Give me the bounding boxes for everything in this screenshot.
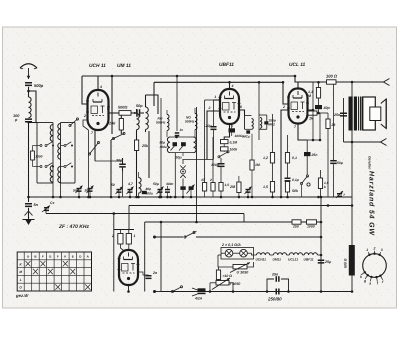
capacitor bridge box <box>266 279 290 293</box>
coil L3a <box>58 124 61 140</box>
capacitor jack <box>180 186 185 198</box>
wire lamp stub bottom <box>153 290 161 293</box>
svg-text:2n: 2n <box>152 271 158 275</box>
svg-text:80p: 80p <box>146 187 152 191</box>
svg-text:1,5: 1,5 <box>225 183 230 187</box>
svg-text:500: 500 <box>73 189 79 193</box>
wire top rail A <box>82 75 295 77</box>
resistor heater a <box>111 230 123 249</box>
wire x352 long <box>351 81 354 97</box>
coil L6 small <box>139 172 142 197</box>
svg-text:5n: 5n <box>34 203 39 207</box>
resistor U3050 shunt <box>230 263 250 275</box>
svg-text:25μ: 25μ <box>324 260 332 264</box>
wire box tube4 right <box>160 221 163 292</box>
coil IF3b <box>259 115 267 129</box>
trimmer T7 <box>245 187 252 198</box>
svg-text:0,1: 0,1 <box>292 156 297 160</box>
wire lamp stub top <box>153 236 183 239</box>
resistor 1M mid <box>250 134 260 197</box>
label 80p <box>160 141 166 145</box>
svg-text:M: M <box>19 270 22 274</box>
switch mains <box>184 231 197 238</box>
wire x333 vert <box>332 81 335 160</box>
wire coil box link <box>29 122 38 124</box>
svg-text:25n: 25n <box>333 113 341 117</box>
trimmer T5 <box>127 182 134 197</box>
svg-text:ZF : 470 KHz: ZF : 470 KHz <box>58 224 90 230</box>
svg-text:?: ? <box>343 193 345 197</box>
coil L3b <box>58 143 61 159</box>
wire tube2 bottom pin <box>224 124 234 140</box>
svg-text:0,1M: 0,1M <box>230 141 238 145</box>
capacitor trim IF2b <box>179 142 186 150</box>
wire tube4 top bracket <box>114 229 134 231</box>
capacitor 5n <box>25 203 39 207</box>
tube socket diagram <box>360 247 386 286</box>
switch row A2 <box>37 163 54 168</box>
wire x196.5 long <box>195 107 198 223</box>
svg-text:UBF11: UBF11 <box>304 258 314 262</box>
tube U4 UY-rect <box>118 250 140 285</box>
label IF1b <box>185 116 195 124</box>
wire IF2 down <box>175 153 183 197</box>
trimmer T3 <box>187 185 195 199</box>
svg-text:100k: 100k <box>230 148 239 152</box>
wire x149 vertical <box>148 131 150 178</box>
wire coil L5 top <box>146 95 159 114</box>
coil IF2b <box>194 137 197 153</box>
svg-text:500Ω: 500Ω <box>118 106 127 110</box>
switch row A1 <box>37 142 54 147</box>
speaker frame <box>363 97 376 130</box>
label UM 11 <box>117 63 131 69</box>
svg-text:UBF11: UBF11 <box>219 62 234 68</box>
switch mains lower <box>171 286 182 293</box>
switch row B2 <box>61 163 74 168</box>
svg-text:F: F <box>57 254 59 258</box>
svg-text:MCμ: MCμ <box>243 135 250 139</box>
capacitor 400a <box>142 187 153 196</box>
svg-text:a: a <box>369 281 371 285</box>
connector plug bottom <box>381 139 387 146</box>
capacitor trim IF2a <box>171 142 178 150</box>
trimmer rail C end <box>42 206 50 213</box>
svg-text:1: 1 <box>134 234 136 238</box>
label ZF 470 KHz <box>58 224 90 230</box>
trimmer T1 <box>73 186 83 198</box>
svg-text:400n: 400n <box>165 182 173 186</box>
wire rail C <box>46 208 244 222</box>
resistor U3050 b <box>212 278 240 290</box>
wire anode rail right <box>298 81 327 83</box>
resistor 1k h <box>308 111 322 121</box>
label UCH 11 <box>89 63 106 69</box>
speaker cone <box>381 99 386 129</box>
switch lever top <box>69 118 79 127</box>
resistor 0.1M b <box>285 135 297 163</box>
svg-text:50: 50 <box>111 183 115 187</box>
wire tube2 top drop <box>228 81 231 90</box>
lamp box <box>221 248 254 260</box>
resistor 100k <box>221 147 239 152</box>
svg-text:250/80: 250/80 <box>267 297 282 302</box>
transformer output bars <box>349 97 363 131</box>
resistor 1.5k <box>318 170 328 197</box>
svg-text:250: 250 <box>292 225 299 229</box>
tube U2 UBF11 <box>219 89 241 124</box>
svg-text:UCL 11: UCL 11 <box>289 62 306 68</box>
label UBF11 <box>219 62 234 68</box>
resistor 1.2k <box>263 114 275 197</box>
ground chassis <box>23 220 35 226</box>
switch S5 <box>111 132 125 140</box>
heater UBF11 <box>304 253 318 262</box>
wire tube4 pins top <box>120 248 128 251</box>
resistor 0.1M <box>221 140 238 145</box>
wire tube2 top pin <box>231 84 234 88</box>
svg-text:2: 2 <box>282 105 285 109</box>
svg-text:2: 2 <box>208 106 211 110</box>
label UCL 11 <box>289 62 306 68</box>
wire tube2 right pin <box>239 105 245 116</box>
coil L5 <box>146 95 149 132</box>
svg-text:25k: 25k <box>141 144 149 148</box>
wire rail A <box>27 196 352 199</box>
wire u3050b leads <box>209 283 235 293</box>
svg-text:50k: 50k <box>292 189 299 193</box>
tube U1 UCH11 <box>86 90 110 130</box>
wire rail drop x112 <box>111 75 114 134</box>
resistor 2M <box>229 176 241 197</box>
capacitor 40p <box>315 105 331 114</box>
wire x321 upper <box>320 140 322 170</box>
trimmer x339 <box>336 191 345 198</box>
svg-text:2: 2 <box>111 234 114 238</box>
resistor 10ohm <box>216 267 232 283</box>
trimmer T2 <box>85 186 94 198</box>
resistor 600ohm <box>344 245 355 276</box>
svg-text:25n: 25n <box>271 273 279 277</box>
wire speaker bottom <box>344 141 382 144</box>
svg-text:2M: 2M <box>229 185 236 189</box>
coil L1 antenna <box>29 97 32 118</box>
label 400a <box>159 145 167 149</box>
coil L3c <box>58 167 61 183</box>
resistor mid1 <box>200 178 207 197</box>
capacitor 250-80 <box>267 289 282 302</box>
svg-text:1: 1 <box>366 248 368 252</box>
wire branch right <box>29 91 37 123</box>
capacitor 25n bridge <box>271 273 280 282</box>
coil IF2a <box>167 137 170 153</box>
capacitor 400n <box>165 182 173 197</box>
svg-text:U 3050: U 3050 <box>237 271 249 275</box>
wire x259 drop <box>258 81 261 140</box>
wire coil block bottoms <box>53 130 88 197</box>
capacitor 25n mid <box>304 140 320 175</box>
arrow symbol <box>25 208 33 219</box>
svg-text:100p: 100p <box>211 163 219 167</box>
resistor 50k <box>285 182 299 198</box>
resistor railD 2 <box>307 220 317 229</box>
wire x320 vert <box>319 113 322 141</box>
wire y159.5 <box>182 159 213 161</box>
wire IF2 frame <box>170 136 194 153</box>
capacitor 50p <box>131 104 144 117</box>
capacitor 0.1u <box>285 163 300 182</box>
coil IF1 primary <box>167 110 169 137</box>
svg-text:20k: 20k <box>108 122 116 126</box>
label lamps <box>221 243 241 247</box>
wire box tube4 left <box>113 212 116 291</box>
trimmer T6 <box>153 182 164 197</box>
resistor 1000 <box>31 146 43 167</box>
svg-text:4/2A: 4/2A <box>194 297 203 301</box>
svg-text:25n: 25n <box>311 153 318 157</box>
resistor 25k <box>135 140 150 197</box>
mains plug <box>192 288 206 301</box>
resistor 2k <box>321 113 336 197</box>
speaker magnet <box>370 107 381 121</box>
label 50u <box>176 156 183 160</box>
svg-text:2: 2 <box>83 114 86 118</box>
lamp 2 <box>240 249 248 257</box>
svg-text:3x: 3x <box>180 128 184 132</box>
resistor 100ohm <box>326 74 384 85</box>
resistor mid3 <box>219 183 229 198</box>
wire rail drop x82 <box>82 76 88 104</box>
wire tube3 top drop <box>294 75 298 89</box>
heater UM11 <box>273 253 287 262</box>
label brand <box>368 156 376 236</box>
wire x352 down <box>351 130 353 245</box>
svg-text:1000: 1000 <box>307 225 315 229</box>
wire x161 vertical <box>160 98 162 197</box>
coil IF3a <box>245 116 254 130</box>
svg-text:<10 Ω: <10 Ω <box>223 274 233 278</box>
svg-text:L: L <box>20 278 22 282</box>
tube U3 UCL11 <box>287 89 309 124</box>
wire x111 down <box>110 140 112 197</box>
coil can A frame <box>37 123 53 184</box>
svg-text:UCL11: UCL11 <box>288 258 298 262</box>
svg-text:MF2: MF2 <box>268 123 275 127</box>
label IF1 <box>156 117 166 125</box>
svg-text:F: F <box>42 254 44 258</box>
svg-text:4: 4 <box>99 85 102 89</box>
resistor 1.5M <box>263 182 275 193</box>
svg-text:100 Ω: 100 Ω <box>326 74 338 79</box>
connector plug top <box>384 79 390 86</box>
wire x343 speaker left <box>343 98 345 142</box>
capacitor 30p <box>116 158 126 171</box>
wire tube1 top pin <box>98 76 102 91</box>
wire lamp internal <box>221 253 257 255</box>
wire antenna to coil <box>27 87 30 97</box>
svg-text:4: 4 <box>231 84 234 88</box>
coil L4 <box>137 109 140 140</box>
svg-text:80p: 80p <box>160 141 166 145</box>
switch S4 tube1 cathode <box>88 141 99 155</box>
wire segment cathode region <box>95 161 123 197</box>
switch S7 <box>300 175 310 197</box>
svg-text:3: 3 <box>381 248 383 252</box>
wire tube3 left pin <box>280 105 289 198</box>
svg-text:E: E <box>72 254 74 258</box>
svg-text:6: 6 <box>107 107 109 111</box>
svg-text:k: k <box>324 185 326 189</box>
antenna <box>20 64 37 79</box>
capacitor 25n spk <box>333 113 347 118</box>
wire tube2 left pins <box>207 95 220 160</box>
capacitor 50n right <box>330 160 344 197</box>
coil can B frame <box>61 123 76 184</box>
capacitor 2n tube4 <box>138 271 158 283</box>
svg-text:E: E <box>49 254 51 258</box>
svg-text:600 Ω: 600 Ω <box>344 258 348 268</box>
svg-text:50p: 50p <box>136 104 143 108</box>
wire rail B <box>129 204 353 230</box>
wire tube4 bottom <box>127 285 130 293</box>
wire 600ohm bottom <box>351 276 354 293</box>
wire shunt leads <box>218 255 254 267</box>
svg-text:1M: 1M <box>255 163 260 167</box>
wire tube3 grid drop <box>282 81 289 104</box>
svg-text:400a: 400a <box>159 145 167 149</box>
svg-text:Gerufon: Gerufon <box>368 156 372 169</box>
capacitor 100p <box>13 114 32 123</box>
svg-text:UM 11: UM 11 <box>117 63 131 69</box>
lamp 1 <box>225 249 233 257</box>
wire x313 <box>312 82 315 141</box>
coil IF1b <box>195 108 197 137</box>
svg-text:50μ: 50μ <box>153 182 160 186</box>
svg-text:50μ: 50μ <box>176 156 183 160</box>
switch S6 <box>218 144 229 158</box>
svg-text:UM11: UM11 <box>273 258 282 262</box>
wire down to ground rail <box>28 122 30 203</box>
wire x213 <box>212 137 214 183</box>
svg-text:2 × 0,1 Ω/A: 2 × 0,1 Ω/A <box>221 243 241 247</box>
resistor 500ohm <box>118 106 131 116</box>
capacitor 500p <box>25 82 44 88</box>
svg-text:0,1μ: 0,1μ <box>292 178 300 182</box>
resistor railD 1 <box>292 220 301 229</box>
capacitor 20p <box>205 100 217 160</box>
svg-text:2: 2 <box>373 247 376 251</box>
wire tube1 right pin <box>107 107 119 113</box>
heater UCH11 <box>256 253 270 262</box>
svg-text:500Hz: 500Hz <box>185 120 195 124</box>
capacitor 100p black <box>229 124 245 138</box>
svg-text:gez.W: gez.W <box>15 293 29 298</box>
wire lamp line right <box>196 236 321 238</box>
jack symbol <box>180 160 185 187</box>
wire tube1 left pin <box>83 114 88 130</box>
label Cx <box>50 201 55 205</box>
resistor mid2 <box>209 178 215 197</box>
svg-text:400a: 400a <box>145 192 153 196</box>
svg-text:500p: 500p <box>34 83 44 88</box>
capacitor 3x <box>175 75 184 137</box>
wire x204.6 <box>205 100 214 183</box>
wire mains line <box>161 291 352 293</box>
svg-text:1000: 1000 <box>35 155 42 159</box>
capacitor 100p lower <box>211 158 225 183</box>
capacitor 25u <box>318 260 332 265</box>
svg-text:47: 47 <box>200 178 205 182</box>
svg-text:1: 1 <box>215 95 217 99</box>
svg-text:40p: 40p <box>323 106 331 110</box>
svg-text:UCH 11: UCH 11 <box>89 63 106 69</box>
svg-text:UCH11: UCH11 <box>256 258 267 262</box>
svg-text:2: 2 <box>209 178 212 182</box>
svg-text:20μ: 20μ <box>205 124 213 128</box>
svg-text:U: U <box>27 254 29 258</box>
wire rail D <box>145 222 321 292</box>
resistor heater b <box>126 230 135 248</box>
capacitor MC <box>243 130 250 138</box>
svg-text:1,2: 1,2 <box>263 156 268 160</box>
wire tube3 right pin <box>306 110 313 117</box>
capacitor 150p <box>264 119 275 127</box>
label gez.W <box>15 293 29 298</box>
coil L2a <box>50 125 53 142</box>
resistor 1.1M <box>308 81 321 105</box>
wire tube3 bottom pin <box>294 124 307 141</box>
wire heater links <box>270 254 323 257</box>
switch row B1 <box>61 142 74 147</box>
heater UCL11 <box>288 253 302 262</box>
coil L2b <box>50 166 53 183</box>
svg-text:6: 6 <box>240 105 242 109</box>
svg-text:Harzland 54 GW: Harzland 54 GW <box>368 171 376 236</box>
trimmer T4 <box>111 183 123 197</box>
table tube socket chart <box>17 252 91 291</box>
wire tube1 bottom pin <box>91 130 95 162</box>
svg-text:50μ: 50μ <box>337 161 344 165</box>
resistor 20k <box>108 115 123 134</box>
svg-text:50: 50 <box>85 189 89 193</box>
wire top rail B <box>154 82 283 106</box>
wire x321 vertical <box>320 196 323 293</box>
